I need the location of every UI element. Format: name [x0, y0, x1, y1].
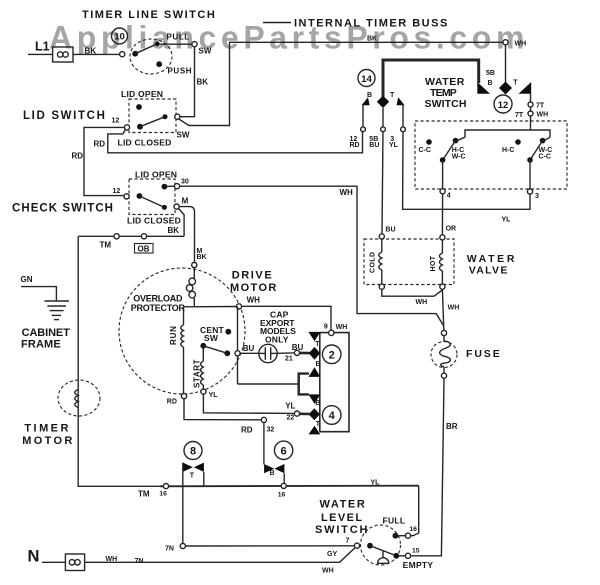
svg-text:12: 12: [498, 100, 509, 111]
water level switch blade: [367, 543, 399, 559]
thick feed wire to connectors 14 and 12: [382, 59, 479, 98]
terminal 9 circle on block: [329, 330, 334, 335]
svg-text:BK: BK: [367, 36, 377, 43]
svg-text:B: B: [270, 470, 275, 477]
motor box left edge with RUN winding: [181, 307, 184, 394]
svg-text:LID OPEN: LID OPEN: [135, 169, 177, 179]
connector 4 diamond: [309, 408, 320, 420]
svg-text:SWITCH: SWITCH: [425, 98, 467, 110]
connector 10: [112, 28, 128, 44]
terminal 7N: [180, 543, 185, 548]
terminal 7: [354, 543, 359, 548]
wire connector 8 right pin stem: [203, 472, 205, 486]
wire valve to fuse: [442, 289, 443, 330]
terminal 4: [440, 189, 445, 194]
svg-text:7: 7: [346, 538, 350, 545]
svg-text:T: T: [316, 421, 321, 428]
svg-text:BU: BU: [243, 344, 255, 353]
connector 14 diamond: [377, 96, 389, 108]
WATER VALVE dashed box: [364, 239, 454, 285]
svg-text:WH: WH: [340, 188, 354, 197]
svg-text:PULL: PULL: [167, 33, 190, 42]
svg-text:TIMER LINE SWITCH: TIMER LINE SWITCH: [82, 9, 216, 21]
svg-text:FULL: FULL: [383, 516, 406, 526]
wire 7T into temp switch: [530, 116, 532, 130]
connector block outline: [320, 333, 349, 432]
terminal 12 check switch: [124, 194, 129, 199]
svg-text:WH: WH: [106, 556, 118, 563]
terminal cold out: [379, 284, 384, 289]
connector 4: [322, 406, 341, 425]
svg-text:5B: 5B: [486, 70, 495, 77]
motor box top edge / wire WH: [184, 306, 237, 308]
svg-text:GN: GN: [21, 275, 33, 284]
terminal M: [174, 204, 179, 209]
connector 14: [358, 70, 375, 87]
pin terminals 12 5B 3: [361, 127, 406, 132]
svg-text:12: 12: [113, 188, 121, 195]
svg-text:WATER: WATER: [425, 76, 465, 88]
terminal 22: [294, 411, 299, 416]
svg-text:RD: RD: [350, 142, 360, 149]
svg-text:10: 10: [114, 32, 125, 43]
wire right pin to 7T: [530, 94, 532, 102]
svg-text:3: 3: [535, 193, 539, 200]
capacitor C1: [240, 344, 294, 362]
timer motor coil: [75, 390, 79, 408]
connector N (line disconnect): [65, 554, 84, 571]
svg-text:7N: 7N: [135, 558, 144, 565]
ground cabinet frame: [44, 301, 69, 320]
wire RD lid 12 to check 12: [84, 127, 125, 195]
svg-text:SW: SW: [199, 47, 212, 56]
connector 12 diamond: [499, 82, 512, 95]
wire M to drive motor: [179, 207, 194, 263]
connector 8 pins: [183, 463, 204, 472]
svg-text:T: T: [513, 80, 518, 87]
terminal 30: [174, 184, 179, 189]
wire WH to connector 2 pin 9: [242, 306, 331, 330]
svg-text:WH: WH: [336, 324, 348, 331]
svg-text:RUN: RUN: [169, 325, 178, 345]
svg-text:12: 12: [112, 117, 120, 124]
svg-text:WATER: WATER: [320, 499, 367, 511]
connector 14 pin leads: [363, 105, 403, 127]
svg-text:M: M: [182, 196, 189, 205]
svg-text:RD: RD: [167, 399, 177, 406]
svg-text:YL: YL: [209, 392, 219, 399]
solenoid COLD: [379, 239, 382, 284]
svg-text:N: N: [28, 548, 40, 566]
wire pivot to terminal 4: [442, 160, 444, 189]
terminal 21: [294, 350, 299, 355]
bracket wire between B pins: [299, 374, 309, 395]
svg-text:LID OPEN: LID OPEN: [121, 89, 163, 99]
svg-text:BK: BK: [197, 254, 207, 261]
svg-text:TIMER: TIMER: [24, 423, 70, 435]
timer motor dashed boundary: [58, 380, 100, 416]
svg-text:EMPTY: EMPTY: [403, 560, 434, 570]
wire BK down to lid switch: [180, 47, 195, 117]
svg-text:MOTOR: MOTOR: [22, 435, 74, 447]
overload protector loops: [186, 268, 195, 307]
connector 14 left pin: [362, 97, 370, 105]
svg-text:YL: YL: [285, 402, 295, 411]
terminal BU cent sw: [235, 351, 240, 356]
terminal 16 left: [163, 484, 168, 489]
lid switch dashed box: [129, 99, 176, 133]
svg-text:ONLY: ONLY: [265, 335, 289, 345]
terminal TM: [114, 234, 119, 239]
svg-text:32: 32: [267, 426, 275, 433]
lid open contact: [162, 184, 168, 190]
svg-text:SW: SW: [177, 131, 190, 140]
wire BK to timer line switch: [73, 53, 120, 55]
svg-text:6: 6: [281, 445, 287, 457]
svg-text:22: 22: [287, 414, 295, 421]
connector 2 diamond: [309, 347, 320, 360]
water level switch dashed boundary: [361, 525, 401, 565]
svg-text:LID CLOSED: LID CLOSED: [127, 216, 181, 226]
wire TM out-of-balance line: [78, 235, 184, 237]
wire 21 to connector 2: [300, 352, 310, 355]
connector 8: [184, 442, 202, 460]
terminal M of motor: [192, 262, 197, 267]
link 7T terminals: [530, 107, 532, 111]
temp switch blade left: [440, 141, 456, 163]
terminal RD: [181, 394, 186, 399]
link empty contact to 15: [399, 555, 405, 557]
svg-text:15: 15: [412, 548, 420, 555]
svg-text:BR: BR: [446, 422, 458, 431]
wire 32 down to connector 6: [263, 423, 265, 465]
water temp switch dashed box: [415, 121, 567, 189]
svg-text:VALVE: VALVE: [469, 265, 509, 277]
svg-text:C-C: C-C: [539, 153, 551, 160]
svg-text:SWITCH: SWITCH: [315, 524, 369, 536]
wire valve outputs WH: [382, 289, 443, 296]
timer line switch dashed boundary: [130, 39, 172, 74]
wire BK from M to TM line: [179, 209, 185, 237]
connector 6 pins: [264, 464, 284, 473]
stub to H-C contact: [458, 137, 466, 140]
svg-text:9: 9: [324, 324, 328, 331]
svg-text:4: 4: [447, 192, 451, 199]
svg-text:COLD: COLD: [370, 252, 377, 273]
svg-text:TM: TM: [100, 241, 112, 250]
connector 12: [494, 95, 512, 113]
svg-text:4: 4: [329, 410, 336, 422]
wire motor to bracket: [238, 383, 299, 385]
terminal OB right: [141, 234, 146, 239]
svg-text:WH: WH: [416, 299, 428, 306]
wire RD lid 12 to connector 14 pin 12: [108, 129, 363, 152]
terminal hot out: [440, 284, 445, 289]
terminal WH on buss: [503, 40, 508, 45]
svg-text:INTERNAL TIMER BUSS: INTERNAL TIMER BUSS: [294, 18, 449, 30]
terminal WH: [236, 304, 241, 309]
wire TM line to water level switch: [160, 485, 419, 488]
svg-text:16: 16: [159, 491, 167, 498]
svg-text:YL: YL: [371, 480, 381, 487]
link to terminal 30: [167, 185, 175, 187]
svg-text:DRIVE: DRIVE: [232, 270, 274, 282]
svg-text:WH: WH: [448, 304, 460, 311]
temp switch blade right: [527, 141, 542, 163]
connector L1 (line disconnect): [53, 47, 73, 62]
svg-text:LID CLOSED: LID CLOSED: [118, 138, 172, 148]
svg-text:PUSH: PUSH: [168, 67, 193, 76]
svg-text:WH: WH: [537, 112, 549, 119]
svg-text:YL: YL: [502, 217, 512, 224]
solenoid HOT: [439, 240, 442, 284]
wire connector 8 left pin down to 7N: [182, 463, 184, 544]
label pointer line: [263, 22, 291, 24]
temp switch distribution wire: [465, 130, 550, 137]
terminal 16 full: [405, 533, 410, 538]
svg-text:LEVEL: LEVEL: [321, 512, 363, 524]
terminal 12 lid switch: [124, 125, 129, 130]
terminal 32: [261, 417, 266, 422]
svg-text:30: 30: [181, 178, 189, 185]
svg-text:T: T: [315, 341, 320, 348]
terminal SW lid switch: [175, 114, 180, 119]
check switch dashed box: [129, 179, 175, 215]
connector 14 right pin: [397, 97, 405, 105]
wire lid switch SW to internal timer buss: [179, 42, 503, 125]
svg-text:T: T: [190, 473, 195, 480]
full contact: [393, 533, 399, 539]
svg-text:OR: OR: [446, 226, 457, 233]
stub to W-C contact: [545, 137, 551, 140]
lid open contact: [136, 104, 142, 110]
svg-text:WH: WH: [322, 568, 334, 575]
wire GN to ground: [21, 287, 56, 301]
svg-text:WATER: WATER: [467, 253, 517, 265]
terminal 7T upper: [528, 102, 533, 107]
wire WH check 30 to fuse top: [180, 186, 444, 326]
wire left rail down to timer motor and TM line: [78, 236, 160, 486]
wire YL pin to temp switch 3: [403, 132, 530, 210]
svg-text:OB: OB: [138, 245, 150, 254]
wire BU pin to water valve: [382, 132, 383, 234]
terminal 15: [405, 553, 410, 558]
centrifugal switch: [200, 329, 231, 356]
svg-text:PROTECTOR: PROTECTOR: [131, 303, 186, 313]
timer line switch moving contact: [132, 42, 159, 57]
fuse F1: [431, 330, 457, 378]
wire GY to terminal 7: [185, 545, 354, 547]
svg-text:B: B: [488, 80, 493, 87]
wire RD motor to terminal 32: [184, 399, 261, 420]
svg-text:HOT: HOT: [430, 255, 437, 271]
terminal YL start winding: [201, 389, 206, 394]
wire N lead-in: [42, 561, 65, 563]
terminal SW: [192, 42, 197, 47]
contact W-C: [540, 138, 546, 144]
connector 12 left pin: [477, 82, 490, 94]
wire 22 to connector 4: [300, 412, 310, 415]
svg-text:START: START: [193, 359, 202, 388]
terminal 7T lower: [528, 111, 533, 116]
connector 6: [274, 441, 292, 459]
START winding: [201, 346, 204, 389]
wire connector 6 right pin down: [283, 473, 285, 483]
svg-text:BK: BK: [85, 47, 97, 56]
wire L1 lead-in: [28, 53, 53, 55]
svg-text:RD: RD: [241, 426, 253, 435]
wire BR fuse to empty contact: [411, 378, 444, 556]
terminal 16 right: [281, 483, 286, 488]
svg-text:T: T: [390, 92, 395, 99]
connector 12 right pin: [519, 82, 532, 94]
svg-text:YL: YL: [389, 142, 399, 149]
contact H-C: [453, 138, 459, 144]
svg-text:BK: BK: [197, 78, 209, 87]
contact H-C right: [515, 139, 521, 145]
svg-text:CHECK SWITCH: CHECK SWITCH: [12, 203, 114, 215]
svg-text:MOTOR: MOTOR: [230, 282, 278, 294]
svg-text:GY: GY: [327, 551, 337, 558]
connector pin T bottom: [309, 426, 321, 435]
contact PUSH: [156, 61, 162, 67]
check switch blade: [137, 193, 167, 210]
svg-text:2: 2: [329, 349, 335, 361]
wire buss WH down to connector 12: [505, 45, 507, 83]
svg-text:BU: BU: [385, 227, 395, 234]
label OB boxed: [135, 244, 154, 254]
svg-text:RD: RD: [94, 140, 106, 149]
svg-text:14: 14: [361, 74, 372, 85]
svg-text:C-C: C-C: [419, 147, 431, 154]
wire YL start to connector 4: [203, 394, 294, 413]
svg-text:B: B: [315, 400, 320, 407]
connector pin B down: [309, 394, 321, 404]
svg-text:7N: 7N: [165, 546, 174, 553]
contact C-C: [426, 139, 432, 145]
terminal OR: [440, 235, 445, 240]
terminal LN open circle: [120, 52, 125, 57]
svg-text:16: 16: [278, 491, 286, 498]
svg-text:21: 21: [285, 356, 293, 363]
svg-text:16: 16: [409, 526, 417, 533]
svg-text:FUSE: FUSE: [466, 348, 502, 360]
svg-text:7T: 7T: [515, 112, 524, 119]
wire YL down to full contact: [411, 486, 419, 536]
motor box right edge: [237, 307, 239, 351]
svg-text:LID SWITCH: LID SWITCH: [23, 110, 107, 122]
wire WH 7N to water level 7: [85, 548, 356, 563]
svg-text:FRAME: FRAME: [21, 339, 61, 351]
svg-text:CABINET: CABINET: [22, 327, 71, 339]
svg-text:WH: WH: [247, 296, 261, 305]
motor box right edge lower: [237, 356, 239, 384]
wire pivot to terminal 3: [529, 160, 531, 189]
svg-text:BU: BU: [369, 142, 379, 149]
svg-text:H-C: H-C: [502, 147, 514, 154]
svg-text:TM: TM: [138, 490, 150, 499]
svg-text:BK: BK: [168, 226, 180, 235]
drive motor dashed boundary: [119, 268, 245, 394]
svg-text:7T: 7T: [536, 103, 545, 110]
svg-text:8: 8: [190, 446, 196, 458]
pressure bell: [378, 551, 389, 564]
connector 2: [322, 345, 341, 364]
connector pin T top: [309, 332, 321, 341]
svg-text:RD: RD: [72, 152, 84, 161]
connector pin B up: [309, 367, 321, 377]
lid switch blade: [137, 114, 167, 129]
svg-text:B: B: [316, 361, 321, 368]
link full contact to 16: [398, 535, 405, 537]
terminal 3: [527, 189, 532, 194]
svg-text:L1: L1: [35, 40, 50, 54]
terminal BU: [379, 234, 384, 239]
svg-text:WH: WH: [515, 41, 527, 48]
svg-text:SW: SW: [204, 333, 219, 343]
svg-text:W-C: W-C: [452, 153, 466, 160]
wire OR temp 4 to water valve: [441, 194, 443, 235]
wire to SW terminal: [160, 43, 192, 45]
